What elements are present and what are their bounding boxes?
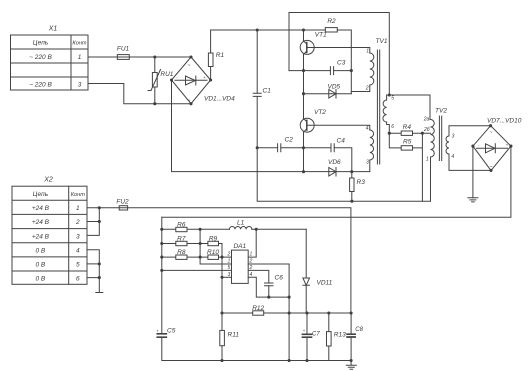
svg-text:R12: R12 bbox=[252, 305, 264, 312]
svg-text:1: 1 bbox=[426, 157, 429, 163]
svg-text:C2: C2 bbox=[285, 137, 294, 144]
svg-text:VT2: VT2 bbox=[314, 109, 326, 116]
svg-text:C6: C6 bbox=[275, 275, 284, 282]
svg-text:VD6: VD6 bbox=[328, 159, 341, 166]
svg-text:3: 3 bbox=[228, 272, 231, 278]
svg-text:R9: R9 bbox=[209, 236, 218, 243]
svg-text:L1: L1 bbox=[237, 220, 245, 227]
svg-text:+: + bbox=[156, 329, 159, 334]
svg-text:2а: 2а bbox=[423, 117, 430, 123]
svg-text:5: 5 bbox=[76, 262, 80, 269]
svg-text:3: 3 bbox=[76, 233, 80, 240]
svg-text:Цепь: Цепь bbox=[33, 191, 49, 198]
svg-text:4: 4 bbox=[451, 154, 454, 160]
svg-text:2: 2 bbox=[227, 252, 231, 258]
svg-text:VD7...VD10: VD7...VD10 bbox=[487, 118, 522, 125]
svg-text:FU2: FU2 bbox=[116, 199, 129, 206]
svg-text:R13: R13 bbox=[334, 331, 346, 338]
svg-text:0 В: 0 В bbox=[36, 247, 46, 254]
svg-text:+24 В: +24 В bbox=[32, 219, 50, 226]
svg-text:1: 1 bbox=[228, 259, 231, 265]
svg-text:C7: C7 bbox=[312, 332, 320, 338]
svg-text:FU1: FU1 bbox=[117, 46, 130, 53]
svg-text:C1: C1 bbox=[263, 88, 272, 95]
svg-text:R2: R2 bbox=[327, 18, 336, 25]
svg-text:2: 2 bbox=[249, 259, 253, 265]
svg-text:R4: R4 bbox=[403, 124, 412, 131]
svg-text:Конт: Конт bbox=[71, 192, 85, 198]
svg-text:2: 2 bbox=[249, 265, 253, 271]
svg-text:4: 4 bbox=[76, 247, 80, 254]
svg-text:C5: C5 bbox=[167, 327, 176, 334]
svg-text:+: + bbox=[303, 328, 306, 333]
svg-text:-: - bbox=[176, 75, 178, 80]
svg-text:~: ~ bbox=[490, 130, 493, 136]
svg-text:1: 1 bbox=[78, 54, 82, 61]
svg-text:C4: C4 bbox=[337, 138, 346, 145]
svg-text:5: 5 bbox=[228, 265, 231, 271]
svg-text:VD1...VD4: VD1...VD4 bbox=[204, 96, 235, 103]
svg-text:-: - bbox=[478, 143, 480, 148]
svg-text:R6: R6 bbox=[177, 221, 186, 228]
svg-text:R3: R3 bbox=[357, 179, 366, 186]
svg-text:TV2: TV2 bbox=[435, 108, 447, 115]
svg-text:0 В: 0 В bbox=[36, 276, 46, 283]
svg-text:3: 3 bbox=[366, 160, 369, 166]
svg-text:~: ~ bbox=[188, 98, 191, 104]
svg-text:2: 2 bbox=[75, 219, 80, 226]
svg-text:R11: R11 bbox=[228, 331, 240, 338]
svg-text:4: 4 bbox=[366, 125, 369, 131]
svg-text:2: 2 bbox=[365, 86, 369, 92]
svg-text:1: 1 bbox=[366, 49, 369, 55]
svg-text:R1: R1 bbox=[216, 52, 225, 59]
svg-text:1: 1 bbox=[250, 252, 253, 258]
svg-text:VD11: VD11 bbox=[317, 280, 333, 287]
svg-text:R5: R5 bbox=[403, 138, 412, 145]
svg-text:RU1: RU1 bbox=[160, 71, 173, 78]
svg-text:6: 6 bbox=[391, 124, 394, 130]
svg-text:3: 3 bbox=[78, 82, 82, 89]
svg-text:2б: 2б bbox=[423, 127, 430, 133]
svg-text:+: + bbox=[203, 75, 206, 80]
svg-text:+: + bbox=[506, 143, 509, 148]
svg-text:R7: R7 bbox=[177, 236, 186, 243]
svg-text:Конт: Конт bbox=[72, 41, 86, 47]
svg-text:~ 220 В: ~ 220 В bbox=[29, 54, 52, 61]
svg-text:X1: X1 bbox=[48, 26, 58, 33]
svg-text:~: ~ bbox=[188, 63, 191, 69]
svg-text:+24 В: +24 В bbox=[32, 205, 50, 212]
svg-text:5: 5 bbox=[391, 96, 394, 102]
svg-text:C8: C8 bbox=[355, 327, 363, 333]
svg-text:VD5: VD5 bbox=[328, 84, 341, 91]
svg-text:3: 3 bbox=[452, 134, 455, 140]
svg-text:~ 220 В: ~ 220 В bbox=[29, 82, 52, 89]
svg-text:VT1: VT1 bbox=[315, 32, 327, 39]
svg-text:~: ~ bbox=[490, 165, 493, 171]
svg-text:4: 4 bbox=[250, 272, 253, 278]
svg-text:+24 В: +24 В bbox=[32, 233, 50, 240]
svg-text:6: 6 bbox=[76, 276, 80, 283]
svg-text:X2: X2 bbox=[43, 177, 53, 184]
svg-text:DA1: DA1 bbox=[233, 243, 246, 250]
svg-text:Цепь: Цепь bbox=[33, 40, 49, 47]
svg-text:0 В: 0 В bbox=[36, 262, 46, 269]
svg-text:1: 1 bbox=[76, 205, 80, 212]
svg-text:TV1: TV1 bbox=[376, 38, 388, 45]
svg-text:C3: C3 bbox=[337, 60, 346, 67]
svg-text:R8: R8 bbox=[177, 249, 186, 256]
svg-text:R10: R10 bbox=[207, 249, 219, 256]
